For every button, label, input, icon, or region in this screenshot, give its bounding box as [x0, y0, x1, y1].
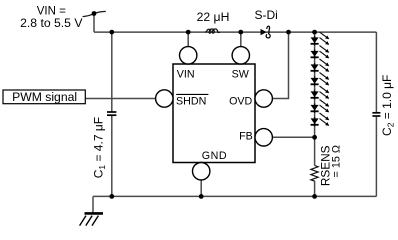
wire LED string vertical — [314, 32, 316, 137]
svg-text:C2 = 1.0 μF: C2 = 1.0 μF — [380, 75, 396, 136]
node junction dot GND bottom bus — [199, 194, 204, 199]
svg-text:2.8 to 5.5 V: 2.8 to 5.5 V — [20, 16, 83, 30]
pin VIN circle — [180, 47, 197, 64]
wire VIN pin drop — [187, 32, 189, 47]
node junction dot C1 bottom bus — [109, 194, 114, 199]
node junction dot RSENS bottom bus — [312, 194, 317, 199]
pin SHDN circle — [156, 90, 173, 107]
wire PWM signal to SHDN pin — [85, 98, 156, 100]
ground — [80, 213, 103, 225]
pin OVD circle — [255, 90, 272, 107]
wire GND pin to bottom bus — [200, 179, 202, 196]
svg-text:SHDN: SHDN — [176, 95, 206, 107]
svg-text:PWM signal: PWM signal — [12, 90, 77, 104]
node VIN input terminal tick — [83, 11, 106, 16]
wire C1 bottom to bottom bus — [111, 115, 113, 196]
PWM signal source box — [3, 90, 85, 104]
wire C1 branch from top bus — [111, 32, 113, 112]
wire top bus horizontal — [94, 31, 376, 33]
pin SW circle — [232, 47, 249, 64]
wire bottom bus horizontal — [93, 195, 376, 197]
capacitor C1 — [107, 112, 116, 115]
svg-text:VIN: VIN — [177, 68, 195, 80]
svg-text:GND: GND — [202, 150, 227, 162]
diode S-Di (Schottky) — [261, 26, 271, 38]
LED D7 — [311, 113, 330, 126]
wire OVD to top bus — [272, 32, 289, 98]
LED D4 — [311, 73, 330, 86]
node junction dot OVD branch — [286, 30, 291, 35]
capacitor C2 — [372, 113, 380, 116]
wire RSENS top lead — [314, 137, 316, 165]
node junction dot C1 branch on top bus — [109, 30, 114, 35]
wire FB to LED string — [272, 136, 315, 138]
wire C2 bottom to bottom bus — [375, 117, 377, 197]
IC U1 LED driver body — [173, 64, 255, 163]
pin FB circle — [255, 129, 272, 146]
resistor RSENS zigzag — [311, 166, 318, 182]
LED D2 — [311, 46, 330, 59]
wire ground branch — [92, 196, 94, 213]
svg-text:C1 = 4.7 μF: C1 = 4.7 μF — [91, 117, 107, 178]
pin GND circle — [193, 163, 210, 180]
node junction dot FB / LED bottom — [312, 135, 317, 140]
LED D3 — [311, 59, 330, 72]
svg-text:= 15 Ω: = 15 Ω — [331, 145, 343, 177]
wire VIN entry vertical — [93, 14, 95, 33]
LED D1 — [311, 32, 330, 45]
node junction dot inductor right — [238, 30, 243, 35]
inductor 22 uH — [205, 29, 220, 33]
svg-text:22 μH: 22 μH — [197, 10, 230, 24]
LED D5 — [311, 86, 330, 99]
node junction dot inductor left — [186, 30, 191, 35]
LED D6 — [311, 100, 330, 113]
svg-text:SW: SW — [232, 68, 250, 80]
node VIN entry junction dot — [92, 11, 97, 16]
wire SW pin drop — [240, 32, 242, 47]
svg-text:S-Di: S-Di — [255, 8, 278, 22]
wire right branch down to C2 top — [375, 32, 377, 112]
svg-text:FB: FB — [239, 130, 253, 142]
wire RSENS bottom lead — [314, 181, 316, 196]
svg-text:OVD: OVD — [229, 95, 252, 107]
node junction dot LED string top — [312, 30, 317, 35]
